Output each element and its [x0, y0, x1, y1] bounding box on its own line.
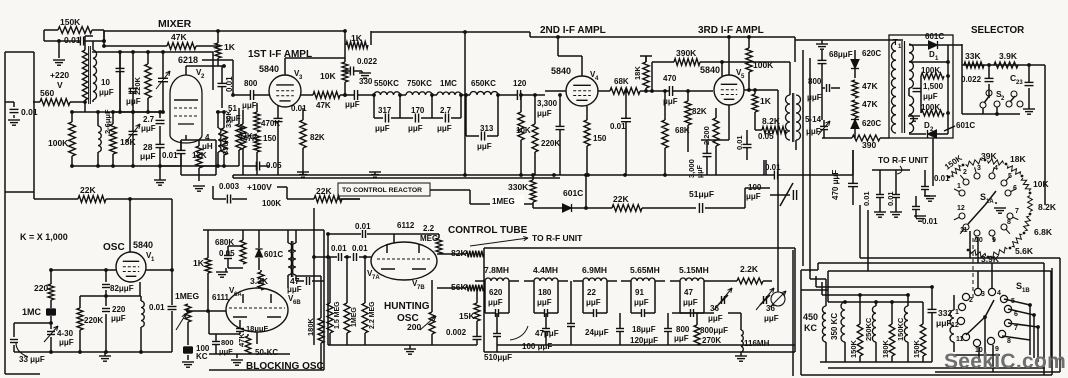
svg-text:68μμF: 68μμF: [829, 50, 853, 59]
resistor arc segments: [951, 165, 962, 176]
svg-text:6: 6: [1014, 311, 1018, 318]
svg-text:10K: 10K: [1033, 179, 1049, 189]
ground filter: [735, 355, 747, 357]
ground top: [816, 43, 828, 45]
ground rail2: [369, 171, 381, 173]
wire ladder L4: [828, 301, 923, 303]
svg-text:8: 8: [1007, 219, 1011, 226]
node rail: [519, 173, 523, 177]
resistor 220K sym: [532, 124, 538, 152]
ground: [193, 185, 205, 187]
svg-text:390: 390: [862, 140, 876, 150]
svg-text:5.15MH: 5.15MH: [679, 265, 709, 275]
wire hunt left rails: [313, 208, 315, 345]
ground rail: [297, 171, 309, 173]
inductor osc coil: [141, 301, 144, 327]
wire V4 feed: [557, 37, 559, 56]
wire bus vertical 3: [809, 58, 811, 272]
svg-text:4: 4: [994, 165, 998, 172]
wire V5 low: [765, 160, 767, 175]
svg-text:11: 11: [960, 227, 968, 234]
svg-text:800: 800: [808, 77, 822, 86]
svg-text:0.01: 0.01: [162, 151, 178, 160]
svg-text:150: 150: [593, 134, 607, 143]
svg-text:620C: 620C: [862, 49, 881, 58]
wire bus vertical 2: [802, 50, 804, 266]
capacitor 0.003: [226, 195, 228, 204]
svg-text:7: 7: [1014, 325, 1018, 332]
svg-text:120μμF: 120μμF: [630, 336, 658, 345]
inductor 450KC: [822, 306, 826, 342]
ground: [359, 72, 371, 74]
svg-text:47K: 47K: [316, 101, 331, 110]
svg-text:0.01: 0.01: [765, 163, 781, 172]
svg-text:47: 47: [684, 288, 693, 297]
wire 1MEG: [470, 203, 533, 205]
wire T1 inner: [909, 61, 948, 63]
svg-text:51μμF: 51μμF: [689, 189, 714, 199]
svg-text:μμF: μμF: [59, 338, 74, 347]
capacitor 100uuF sym: [792, 190, 794, 200]
wire osc drop: [129, 199, 131, 252]
wire: [160, 165, 181, 167]
tube V7 dual: [371, 242, 437, 280]
svg-text:1K: 1K: [193, 258, 205, 268]
wire top rail: [104, 30, 345, 32]
svg-text:1K: 1K: [224, 42, 236, 52]
svg-text:TO R-F UNIT: TO R-F UNIT: [532, 233, 583, 243]
svg-text:220: 220: [112, 305, 126, 314]
svg-text:5-14: 5-14: [805, 115, 822, 124]
svg-text:μμF: μμF: [287, 285, 302, 294]
svg-text:0.01: 0.01: [934, 174, 950, 183]
svg-text:22: 22: [587, 288, 596, 297]
inductor 150KC: [904, 306, 908, 342]
wire ladder L2: [816, 286, 932, 288]
svg-text:1: 1: [957, 183, 961, 190]
tube V5: [714, 75, 744, 105]
svg-text:6111: 6111: [212, 293, 229, 302]
svg-text:0.002: 0.002: [446, 328, 467, 337]
svg-text:5.6K: 5.6K: [1015, 246, 1034, 256]
svg-text:0.01: 0.01: [21, 107, 38, 117]
wire mixer cluster: [199, 165, 239, 167]
resistor 2200 sym: [713, 118, 719, 146]
resistor 1MEG sym: [185, 304, 191, 322]
wire mixer plate to IF: [202, 59, 233, 61]
wire tuned circuit stubs: [373, 95, 375, 118]
svg-text:6218: 6218: [178, 55, 198, 65]
wire V1 plate: [146, 269, 172, 271]
wire filter to box: [763, 160, 765, 175]
wire IF bottom rail: [233, 174, 764, 176]
svg-text:180K: 180K: [881, 339, 890, 358]
box 12K: [181, 139, 216, 141]
svg-text:HUNTING: HUNTING: [384, 301, 430, 312]
node: [843, 300, 847, 304]
svg-text:33 μμF: 33 μμF: [19, 355, 45, 364]
svg-text:0.01: 0.01: [291, 104, 307, 113]
svg-text:39K: 39K: [981, 151, 997, 161]
svg-text:5840: 5840: [133, 240, 153, 250]
tube V2 mixer: [170, 75, 202, 143]
svg-text:μμF: μμF: [746, 192, 761, 201]
box TO CONTROL REACTOR: [338, 183, 430, 196]
tube V1: [116, 252, 146, 282]
wire: [84, 100, 86, 112]
svg-text:6B: 6B: [293, 300, 301, 306]
variable capacitor 2-6uuF: [129, 130, 138, 132]
svg-text:+220: +220: [50, 70, 69, 80]
svg-text:800μμF: 800μμF: [700, 326, 728, 335]
svg-text:47K: 47K: [862, 99, 878, 109]
svg-text:μμF: μμF: [936, 318, 952, 328]
svg-text:47K: 47K: [237, 333, 246, 347]
svg-text:18K: 18K: [633, 66, 642, 80]
transformer input winding: [82, 50, 87, 100]
svg-text:10K: 10K: [320, 71, 336, 81]
svg-text:750KC: 750KC: [407, 79, 432, 88]
wire mixer bottom: [113, 111, 163, 113]
wire: [222, 64, 226, 68]
svg-text:470 μμF: 470 μμF: [831, 170, 840, 200]
ground T1: [908, 115, 920, 117]
node: [231, 93, 235, 97]
wire left edge: [4, 52, 6, 374]
wire: [498, 94, 513, 96]
svg-text:22K: 22K: [80, 185, 96, 195]
svg-text:8.2K: 8.2K: [1038, 202, 1057, 212]
svg-text:μμF: μμF: [708, 314, 723, 323]
wire 390K right: [721, 62, 723, 76]
svg-text:2,200: 2,200: [702, 126, 711, 145]
svg-text:SeekIC.com: SeekIC.com: [944, 350, 1066, 373]
capacitor 3000 sym: [703, 152, 712, 154]
svg-text:220K: 220K: [84, 316, 103, 325]
wire V1 grid: [51, 269, 116, 271]
filter box outline: [484, 247, 795, 249]
svg-text:1K: 1K: [760, 96, 772, 106]
wire rf unit top: [872, 169, 910, 171]
svg-text:2.2 MEG: 2.2 MEG: [369, 301, 376, 329]
svg-text:3,300: 3,300: [537, 99, 558, 108]
wire reactor: [338, 198, 360, 200]
node: [102, 39, 106, 43]
svg-text:18μμF: 18μμF: [246, 324, 269, 333]
S1B bottom drops: [978, 347, 980, 362]
svg-text:1MEG: 1MEG: [175, 291, 199, 301]
svg-text:μμF: μμF: [923, 92, 938, 101]
ground: [53, 59, 65, 61]
svg-text:550KC: 550KC: [374, 79, 399, 88]
svg-text:82μμF: 82μμF: [110, 284, 134, 293]
svg-text:23: 23: [1016, 80, 1023, 86]
svg-text:CONTROL TUBE: CONTROL TUBE: [448, 225, 528, 236]
svg-text:0.01: 0.01: [149, 303, 165, 312]
resistor 2.2MEG sym: [436, 238, 442, 254]
wire riser 586: [585, 175, 587, 208]
svg-text:μμF: μμF: [477, 142, 492, 151]
svg-text:1: 1: [955, 309, 959, 316]
ground: [890, 211, 902, 213]
svg-text:18K: 18K: [1010, 154, 1026, 164]
wire V4 grid: [545, 90, 566, 92]
svg-text:MIXER: MIXER: [158, 18, 192, 30]
svg-text:3: 3: [981, 291, 985, 298]
wire bus vertical 1: [794, 37, 796, 62]
svg-text:330: 330: [359, 77, 373, 86]
svg-text:μμF: μμF: [634, 298, 649, 307]
wire blk bottom: [209, 353, 290, 355]
svg-text:56K: 56K: [451, 282, 467, 292]
svg-text:800: 800: [244, 79, 258, 88]
svg-text:5.65MH: 5.65MH: [630, 265, 660, 275]
svg-text:1MC: 1MC: [440, 79, 457, 88]
svg-text:150KC: 150KC: [896, 317, 905, 341]
wire transformer: [789, 62, 791, 95]
transformer T1 box: [889, 35, 953, 138]
T1 primary winding: [891, 42, 896, 133]
wire IF bottom rail 2: [233, 177, 560, 179]
wire T1 bottom drop: [932, 138, 934, 186]
svg-text:82K: 82K: [451, 248, 467, 258]
wire: [43, 30, 45, 41]
svg-text:4: 4: [997, 290, 1001, 297]
svg-text:2.7: 2.7: [143, 115, 155, 124]
svg-text:100K: 100K: [262, 199, 281, 208]
T1 core: [901, 41, 903, 133]
wire B+ vertical: [464, 32, 466, 175]
tube V4: [566, 76, 598, 106]
svg-text:220: 220: [34, 283, 48, 293]
svg-text:μμF: μμF: [140, 151, 156, 161]
svg-text:1MEG: 1MEG: [492, 197, 515, 206]
svg-text:KC: KC: [804, 323, 817, 333]
wire ladder L1: [810, 278, 826, 280]
ground: [874, 211, 886, 213]
wire mid to right: [744, 188, 746, 208]
svg-text:12: 12: [951, 322, 959, 329]
svg-text:601C: 601C: [264, 250, 283, 259]
svg-text:100 μμF: 100 μμF: [522, 342, 552, 351]
svg-text:0.01: 0.01: [735, 135, 744, 150]
svg-text:μμF: μμF: [683, 298, 698, 307]
svg-text:5840: 5840: [551, 66, 571, 76]
svg-text:0.022: 0.022: [961, 75, 982, 84]
jog: [346, 42, 368, 49]
svg-text:8.2K: 8.2K: [762, 116, 781, 126]
svg-text:18μμF: 18μμF: [632, 325, 656, 334]
wire filter right edge: [792, 250, 794, 376]
svg-text:22K: 22K: [613, 194, 629, 204]
ground S1A: [994, 207, 1006, 209]
svg-text:0.05: 0.05: [219, 249, 235, 258]
svg-text:2.2K: 2.2K: [740, 264, 759, 274]
svg-text:μμF: μμF: [807, 93, 822, 102]
svg-text:μμF: μμF: [586, 298, 601, 307]
svg-text:6.8K: 6.8K: [1034, 227, 1053, 237]
svg-text:1MEG: 1MEG: [351, 307, 358, 327]
svg-text:250KC: 250KC: [864, 317, 873, 341]
wire: [33, 102, 35, 199]
svg-text:μμF: μμF: [674, 334, 689, 343]
capacitor 3300uuF sym: [556, 125, 565, 127]
svg-text:50-KC: 50-KC: [255, 348, 278, 357]
wire cluster bottom rail: [72, 165, 216, 167]
svg-text:3: 3: [977, 165, 981, 172]
wire selector frame: [961, 44, 963, 114]
inductor antenna coil: [98, 126, 101, 152]
svg-text:μμF: μμF: [408, 124, 423, 133]
svg-text:33K: 33K: [965, 51, 981, 61]
wire cluster top rail: [72, 111, 160, 113]
svg-text:91: 91: [635, 288, 644, 297]
blocking transformer: [288, 243, 292, 275]
svg-text:330K: 330K: [508, 182, 529, 192]
svg-text:270K: 270K: [702, 336, 721, 345]
svg-text:0.01: 0.01: [331, 244, 347, 253]
svg-text:SELECTOR: SELECTOR: [971, 25, 1024, 36]
svg-text:2.2: 2.2: [423, 224, 435, 233]
wire hunt bottom: [328, 344, 477, 346]
svg-text:μH: μH: [202, 142, 213, 151]
svg-text:7.8MH: 7.8MH: [484, 265, 509, 275]
wire V3 top: [284, 58, 286, 75]
ground: [924, 195, 936, 197]
svg-text:TO R-F UNIT: TO R-F UNIT: [878, 155, 929, 165]
svg-text:μμF: μμF: [537, 298, 552, 307]
svg-text:620: 620: [489, 288, 503, 297]
svg-text:0.01: 0.01: [886, 191, 895, 206]
svg-text:1MC: 1MC: [22, 307, 42, 317]
svg-text:7A: 7A: [372, 275, 380, 281]
svg-text:μμF: μμF: [764, 314, 779, 323]
svg-text:0.01: 0.01: [610, 122, 626, 131]
svg-text:0.01: 0.01: [862, 191, 871, 206]
svg-text:601C: 601C: [563, 188, 583, 198]
svg-text:620C: 620C: [862, 119, 881, 128]
wire 18K top: [645, 56, 647, 62]
wire filter inner: [672, 312, 714, 314]
interstage transformer to selector: [786, 95, 791, 140]
svg-text:0.022: 0.022: [357, 57, 378, 66]
wire: [242, 166, 244, 175]
inductor 250KC: [872, 306, 876, 342]
svg-text:2: 2: [963, 169, 967, 176]
wire V5 cathode: [728, 105, 730, 140]
node dots cluster: [70, 110, 74, 114]
svg-text:5840: 5840: [259, 64, 279, 74]
svg-text:K = X 1,000: K = X 1,000: [20, 232, 68, 242]
arrow to rf: [470, 238, 528, 246]
inductor 350KC: [841, 302, 845, 342]
svg-text:5: 5: [1008, 173, 1012, 180]
wire chain to V4: [534, 94, 545, 96]
wire from box: [430, 189, 470, 191]
svg-text:12: 12: [957, 205, 965, 212]
wire ladder top entries: [809, 269, 811, 271]
jack circle: [771, 292, 785, 306]
svg-text:120: 120: [513, 79, 527, 88]
svg-text:24μμF: 24μμF: [585, 328, 609, 337]
wire V2 top: [185, 66, 187, 75]
svg-text:150K: 150K: [849, 339, 858, 358]
ground C23: [1023, 108, 1035, 110]
svg-text:2: 2: [969, 297, 973, 304]
S1B top risers: [977, 271, 979, 289]
svg-text:μμF: μμF: [242, 101, 257, 110]
svg-text:KC: KC: [196, 352, 208, 361]
svg-text:BLOCKING OSC: BLOCKING OSC: [246, 361, 324, 372]
svg-text:510μμF: 510μμF: [484, 353, 512, 362]
svg-text:150: 150: [263, 134, 277, 143]
wire top entry: [795, 39, 903, 41]
svg-text:82K: 82K: [692, 107, 707, 116]
svg-text:68K: 68K: [614, 77, 629, 86]
wire plate drop to jack: [777, 90, 779, 281]
svg-text:μμF: μμF: [488, 298, 503, 307]
node: [650, 89, 654, 93]
svg-text:2-6μμF: 2-6μμF: [103, 109, 112, 134]
svg-text:390K: 390K: [676, 48, 697, 58]
tube V3: [269, 75, 301, 107]
T1 secondary winding upper: [909, 44, 913, 88]
wire column bottom rail: [820, 361, 932, 363]
node: [57, 39, 61, 43]
svg-text:4-30: 4-30: [57, 329, 74, 338]
svg-text:0.05: 0.05: [758, 132, 774, 141]
svg-text:μμF: μμF: [375, 124, 390, 133]
wire blocking top rail: [203, 229, 324, 231]
bus wire rect 3: [860, 257, 1060, 259]
svg-text:116MH: 116MH: [744, 339, 770, 348]
wire: [795, 140, 797, 150]
capacitor 317uuF sym: [384, 114, 386, 123]
svg-text:220K: 220K: [133, 76, 142, 95]
wire left rail: [33, 52, 35, 102]
svg-text:150K: 150K: [912, 339, 921, 358]
svg-text:7B: 7B: [417, 285, 425, 291]
svg-text:μμF: μμF: [111, 314, 126, 323]
label 1MEG: [490, 195, 524, 206]
svg-text:15K: 15K: [459, 311, 475, 321]
svg-text:47μμF: 47μμF: [535, 329, 559, 338]
svg-text:47K: 47K: [171, 32, 187, 42]
switch S1A wiper: [968, 205, 985, 224]
svg-text:μμF: μμF: [345, 100, 360, 109]
svg-text:350 KC: 350 KC: [830, 313, 839, 340]
node: [83, 100, 87, 104]
svg-text:82K: 82K: [310, 133, 325, 142]
svg-text:μμF: μμF: [537, 109, 552, 118]
wire V5 plate: [744, 89, 778, 91]
capacitor 470uuF sym: [848, 182, 858, 184]
wire: [221, 66, 223, 83]
dashed link S1A to S1B: [972, 238, 974, 300]
svg-text:0.01: 0.01: [352, 244, 368, 253]
svg-text:μμF: μμF: [99, 88, 114, 97]
svg-text:1B: 1B: [1022, 288, 1030, 294]
ground crystal: [182, 361, 194, 363]
svg-text:10: 10: [101, 78, 110, 87]
svg-text:4.4MH: 4.4MH: [533, 265, 558, 275]
S1B wiper: [966, 317, 985, 335]
wire S1B bottom: [954, 354, 1000, 356]
variable capacitor mixer: [158, 77, 168, 79]
svg-text:1,500: 1,500: [923, 82, 944, 91]
wire ladder L3: [822, 294, 908, 296]
wire rail right end: [790, 174, 853, 176]
